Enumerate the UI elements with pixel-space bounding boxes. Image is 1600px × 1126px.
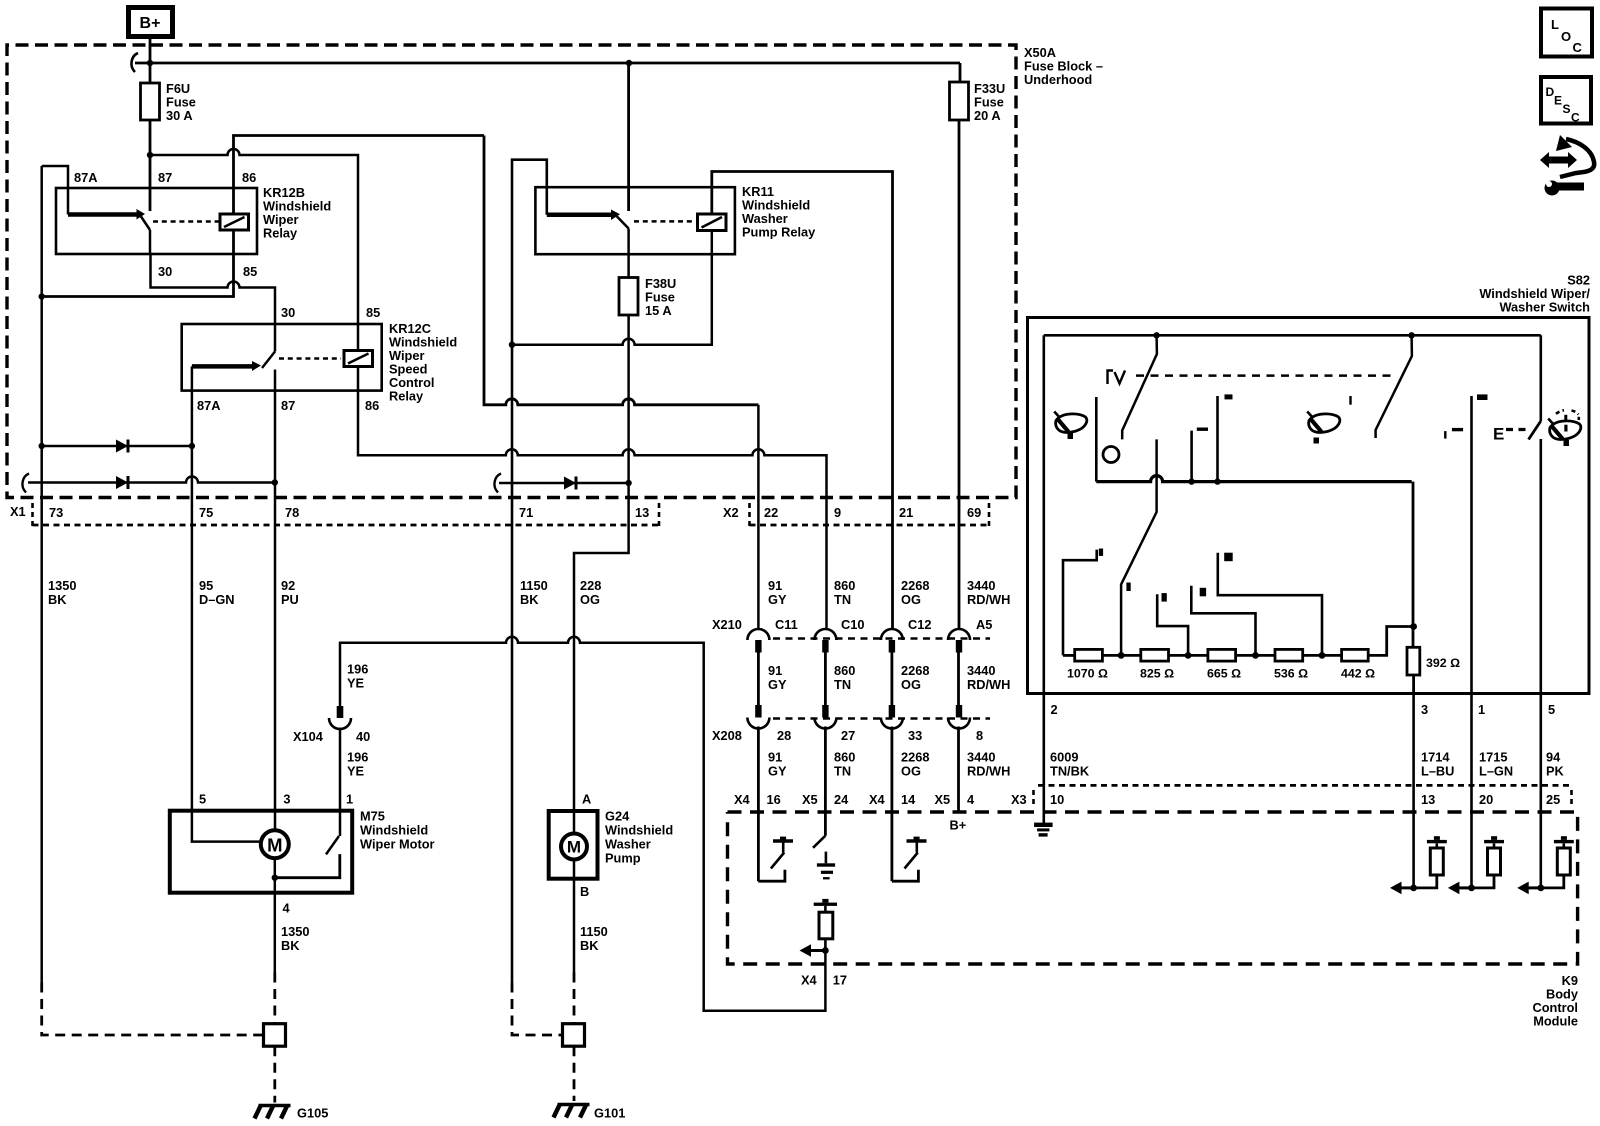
svg-text:1: 1 xyxy=(346,792,353,807)
svg-text:D–GN: D–GN xyxy=(199,592,235,607)
K9 arrow to other circuit X4-17 xyxy=(800,944,826,957)
KR12C relay coil xyxy=(344,351,373,367)
KR11 contact arrowhead xyxy=(611,210,620,221)
svg-text:69: 69 xyxy=(967,505,981,520)
svg-text:Relay: Relay xyxy=(263,226,298,241)
S82 internal top bus xyxy=(1044,334,1541,337)
svg-text:Relay: Relay xyxy=(389,389,424,404)
svg-text:24: 24 xyxy=(834,792,849,807)
wire chain segment xyxy=(1303,654,1342,657)
motor M75 armature circle xyxy=(261,830,289,858)
svg-text:BK: BK xyxy=(281,938,300,953)
S82 washer contact tick pair xyxy=(1445,428,1463,439)
svg-text:X5: X5 xyxy=(935,792,951,807)
svg-text:L–GN: L–GN xyxy=(1479,764,1513,779)
svg-text:B+: B+ xyxy=(950,818,967,833)
svg-text:27: 27 xyxy=(841,728,855,743)
KR11 actuation dashed link xyxy=(634,220,695,223)
svg-text:X104: X104 xyxy=(293,729,324,744)
wire KR12C pin 87 (92 PU) to M75 pin 3 xyxy=(274,391,277,830)
node junction chain (1188.1,655.4) xyxy=(1185,652,1192,659)
svg-text:Underhood: Underhood xyxy=(1024,72,1092,87)
svg-text:M: M xyxy=(267,835,282,856)
svg-text:PU: PU xyxy=(281,592,299,607)
connector X210 dashed plane xyxy=(773,637,990,640)
inline connector X210 A5 on 3440 RD/WH xyxy=(948,629,970,653)
svg-text:91: 91 xyxy=(768,663,782,678)
svg-text:1150: 1150 xyxy=(520,578,548,593)
svg-text:87: 87 xyxy=(281,398,295,413)
svg-text:75: 75 xyxy=(199,505,213,520)
svg-text:33: 33 xyxy=(908,728,922,743)
svg-text:94: 94 xyxy=(1546,750,1561,765)
splice curl on B+ bus xyxy=(131,53,138,72)
S82 washer switch dashed gap xyxy=(1506,428,1526,431)
svg-text:GY: GY xyxy=(768,764,787,779)
svg-text:30: 30 xyxy=(158,264,172,279)
svg-text:Windshield: Windshield xyxy=(360,823,428,838)
wire 3440 RD/WH mid xyxy=(957,653,960,706)
svg-text:21: 21 xyxy=(899,505,913,520)
svg-text:5: 5 xyxy=(1548,702,1555,717)
wire KR12B pin 30 to KR12C pin 30 with hop xyxy=(151,254,276,352)
relay KR12B windshield wiper relay box xyxy=(56,185,331,254)
wire S82 pin 5 (94 PK) to K9 xyxy=(1540,694,1543,888)
inline connector X210 C10 on 860 TN xyxy=(814,629,836,653)
svg-text:1715: 1715 xyxy=(1479,750,1507,765)
svg-text:OG: OG xyxy=(901,677,921,692)
fuse block X50A dashed border xyxy=(7,45,1016,498)
svg-text:1070 Ω: 1070 Ω xyxy=(1067,667,1108,681)
svg-text:87A: 87A xyxy=(74,170,97,185)
svg-text:BK: BK xyxy=(48,592,67,607)
svg-text:RD/WH: RD/WH xyxy=(967,592,1010,607)
node junction S82 top left (1156.6,335.3) xyxy=(1153,332,1159,338)
node junction chain (1121.1,655.4) xyxy=(1118,652,1125,659)
module K9 body control module dashed box xyxy=(728,812,1578,964)
svg-text:Pump Relay: Pump Relay xyxy=(742,225,816,240)
svg-text:Pump: Pump xyxy=(605,851,641,866)
wire chain segment xyxy=(1102,654,1140,657)
svg-text:BK: BK xyxy=(580,938,599,953)
svg-text:536 Ω: 536 Ω xyxy=(1274,667,1308,681)
connector X2 bottom dashed xyxy=(750,524,990,527)
wire chain segment xyxy=(1236,654,1275,657)
dashed wire G24 to splice xyxy=(573,973,576,1024)
wire 196 YE park-signal run with hops xyxy=(340,637,825,1011)
svg-text:30: 30 xyxy=(281,305,295,320)
S82 delay hook contact left xyxy=(1063,549,1103,656)
icon washer spray (right) xyxy=(1548,410,1581,446)
wire KR12B pin 86 to corner feed xyxy=(234,136,485,215)
M75 internal wire pin5 to motor xyxy=(192,811,260,842)
LOC legend box xyxy=(1541,9,1592,57)
svg-text:E: E xyxy=(1554,94,1562,108)
node junction bus at 1191.6 xyxy=(1188,478,1194,484)
fuse F33U 20A xyxy=(950,81,1006,123)
svg-text:91: 91 xyxy=(768,578,782,593)
svg-text:196: 196 xyxy=(347,750,368,765)
svg-text:C10: C10 xyxy=(841,617,864,632)
svg-text:3: 3 xyxy=(283,792,290,807)
wire KR12B pin 87A to left rail xyxy=(42,166,68,215)
M75 park switch hook contact xyxy=(275,854,340,878)
svg-text:3440: 3440 xyxy=(967,663,995,678)
inline connector X104 female cup xyxy=(329,718,351,729)
ground G105 xyxy=(255,1106,329,1121)
icon wiper low (left) xyxy=(1054,412,1087,440)
S82 washer switch blade xyxy=(1529,421,1541,440)
svg-text:4: 4 xyxy=(967,792,975,807)
svg-text:28: 28 xyxy=(777,728,791,743)
dashed wire M75 to splice xyxy=(273,973,276,1024)
svg-text:A: A xyxy=(582,792,591,807)
wire KR12B pin 85 coil to lower-left run xyxy=(42,230,234,297)
node junction at (512,344.7) xyxy=(509,342,515,348)
wire bus end down to 392 resistor xyxy=(1412,482,1415,648)
svg-text:87: 87 xyxy=(158,170,172,185)
wire B+ bus horizontal xyxy=(135,62,960,65)
wire X2-22 branch (91 GY) xyxy=(757,405,760,628)
svg-text:1150: 1150 xyxy=(580,924,608,939)
svg-text:22: 22 xyxy=(764,505,778,520)
wire X1-71 rail up-over to KR11 contact xyxy=(512,160,547,983)
KR12B actuation dashed link xyxy=(153,220,219,223)
svg-text:C12: C12 xyxy=(908,617,931,632)
resistor 536 ohm xyxy=(1274,649,1308,680)
wire chain segment xyxy=(1169,654,1208,657)
svg-text:YE: YE xyxy=(347,764,365,779)
wire KR12C pin 86 to B+ bus of relays xyxy=(358,367,827,629)
icon wiper intermittent (middle) xyxy=(1307,412,1340,444)
M75 motor bottom to pin 4 xyxy=(274,858,277,893)
KR12C contact arrowhead xyxy=(252,361,261,371)
wire 860 TN lower to K9 xyxy=(824,727,827,836)
svg-text:RD/WH: RD/WH xyxy=(967,764,1010,779)
svg-text:X2: X2 xyxy=(723,505,739,520)
svg-text:OG: OG xyxy=(901,764,921,779)
svg-text:20: 20 xyxy=(1479,792,1493,807)
KR12C switch blade xyxy=(262,352,275,369)
wire F33U feed vertical xyxy=(959,63,962,82)
svg-text:Washer Switch: Washer Switch xyxy=(1499,300,1590,315)
K9 pull-up for 1714 L-BU xyxy=(1390,836,1447,894)
wire M75 pin 4 ground lead 1350 BK xyxy=(274,893,277,973)
DESC legend box xyxy=(1541,77,1591,125)
pump G24 windshield washer pump box xyxy=(549,809,673,879)
resistor 442 ohm xyxy=(1341,649,1375,680)
connector X3 right separator xyxy=(1570,790,1573,808)
diode line A 1350BK to 95DGN xyxy=(39,440,196,453)
svg-text:B: B xyxy=(580,884,589,899)
wire F33U to X2 pin 69 (3440 RD/WH) xyxy=(958,120,961,628)
label X50A Fuse Block Underhood xyxy=(1024,45,1103,87)
svg-text:91: 91 xyxy=(768,750,782,765)
S82 delay hook contact B xyxy=(1191,586,1255,656)
inline connector X208 33 on 2268 OG xyxy=(881,705,903,729)
connector X2 right separator xyxy=(988,503,991,526)
inline connector X210 C11 on 91 GY xyxy=(747,629,769,653)
svg-text:OG: OG xyxy=(901,592,921,607)
wire 392 resistor to S82 pin 3 xyxy=(1412,675,1415,694)
svg-text:Module: Module xyxy=(1533,1014,1578,1029)
S82 contact tick near middle icon xyxy=(1349,396,1351,405)
M75 park switch blade xyxy=(326,836,339,854)
wire KR11 coil bottom to X1-71 junction xyxy=(512,231,712,345)
svg-text:C11: C11 xyxy=(775,617,798,632)
svg-text:392 Ω: 392 Ω xyxy=(1426,656,1460,670)
resistor 392 ohm xyxy=(1407,647,1460,675)
svg-text:15 A: 15 A xyxy=(645,303,672,318)
KR11 fixed contact bar xyxy=(547,213,612,218)
wire chain to 392 node xyxy=(1368,627,1413,656)
svg-text:95: 95 xyxy=(199,578,213,593)
wire S82 pin 3 (1714 L-BU) to K9 xyxy=(1412,694,1415,888)
switch S82 windshield wiper/washer switch outer box xyxy=(1028,318,1590,694)
wire G24 pin B ground lead 1150 BK xyxy=(573,860,576,973)
svg-text:196: 196 xyxy=(347,662,368,677)
node junction B+ bus at F6U xyxy=(147,60,153,66)
svg-text:86: 86 xyxy=(365,398,379,413)
ground G101 xyxy=(554,1105,626,1121)
battery positive terminal B+ xyxy=(129,8,173,37)
connector X2 separator xyxy=(748,503,751,526)
wire 2268 OG lower to K9 xyxy=(891,727,894,882)
connector X1 separator xyxy=(31,503,34,526)
svg-text:442 Ω: 442 Ω xyxy=(1341,667,1375,681)
ground G at BCM 6009 xyxy=(1034,823,1053,837)
svg-text:GY: GY xyxy=(768,677,787,692)
node junction chain (1322,655.4) xyxy=(1319,652,1326,659)
connector X1 bottom dashed xyxy=(33,524,660,527)
S82 pin 2 rail (left edge) xyxy=(1043,335,1046,693)
node junction bus at 1217.5 xyxy=(1214,478,1220,484)
inline connector X208 27 on 860 TN xyxy=(814,705,836,729)
svg-text:4: 4 xyxy=(283,901,291,916)
node junction (1413.6,626.5) xyxy=(1410,623,1417,630)
wire pin86 KR12B feeder down to KR11 row xyxy=(484,136,758,405)
svg-text:16: 16 xyxy=(767,792,781,807)
svg-text:A5: A5 xyxy=(976,617,992,632)
relay KR11 washer pump relay box xyxy=(535,184,816,254)
svg-text:2268: 2268 xyxy=(901,663,929,678)
svg-text:X4: X4 xyxy=(734,792,751,807)
svg-text:860: 860 xyxy=(834,663,855,678)
inline connector X104 male terminal xyxy=(337,706,344,718)
S82 contact stub mist xyxy=(1192,428,1208,482)
wire junction 155 to KR12C pin 85 with hop over pin86 wire xyxy=(150,149,358,351)
svg-text:X1: X1 xyxy=(10,504,26,519)
S82 delay hook contact A xyxy=(1157,593,1188,655)
svg-text:E: E xyxy=(1493,425,1504,444)
K9 driver switch for wire 14 xyxy=(892,837,927,882)
svg-text:13: 13 xyxy=(1421,792,1435,807)
connector X3 separator xyxy=(1032,790,1035,808)
svg-text:1350: 1350 xyxy=(48,578,76,593)
svg-text:10: 10 xyxy=(1050,792,1064,807)
node junction chain (1255.5,655.4) xyxy=(1252,652,1259,659)
node junction B+ bus at F38U branch xyxy=(626,60,632,66)
svg-text:92: 92 xyxy=(281,578,295,593)
S82 contact stub low/high xyxy=(1218,394,1233,481)
svg-text:Washer: Washer xyxy=(605,837,651,852)
svg-text:9: 9 xyxy=(834,505,841,520)
S82 wiper switch left blade xyxy=(1122,337,1157,440)
fuse F6U 30A xyxy=(141,81,196,123)
connector X1 right separator xyxy=(658,503,661,526)
wire 91 GY mid xyxy=(757,653,760,706)
svg-text:TN: TN xyxy=(834,592,851,607)
K9 switch to ground for wire 24 xyxy=(813,836,835,880)
svg-text:17: 17 xyxy=(833,973,847,988)
KR12B fixed contact 87A bar xyxy=(68,212,137,217)
resistor 665 ohm xyxy=(1207,649,1241,680)
K9 internal resistor on X4-17 xyxy=(814,899,837,951)
svg-text:20 A: 20 A xyxy=(974,108,1001,123)
svg-text:M75: M75 xyxy=(360,809,385,824)
wire B+ terminal to fuse block bus xyxy=(149,39,152,83)
dashed wire 1150 BK rail to splice xyxy=(512,983,563,1036)
svg-text:1: 1 xyxy=(1478,702,1485,717)
KR11 relay coil xyxy=(698,214,727,231)
splice node box G105 circuit xyxy=(264,1024,286,1046)
svg-text:RD/WH: RD/WH xyxy=(967,677,1010,692)
resistor 1070 ohm xyxy=(1067,649,1108,680)
svg-text:14: 14 xyxy=(901,792,916,807)
svg-text:Wiper Motor: Wiper Motor xyxy=(360,837,435,852)
S82 wiper switch right blade xyxy=(1376,337,1412,439)
left rail 87A/85 vertical (becomes 1350 BK) xyxy=(40,166,43,983)
motor M75 windshield wiper motor box xyxy=(170,809,435,893)
svg-text:40: 40 xyxy=(356,729,370,744)
svg-text:860: 860 xyxy=(834,578,855,593)
KR12C actuation dashed link xyxy=(279,357,341,360)
KR11 switch blade xyxy=(617,216,629,229)
pump G24 motor circle xyxy=(561,834,587,860)
KR11 blade to F38U internal xyxy=(627,229,630,278)
dashed wire splice to G105 xyxy=(273,1046,276,1102)
svg-text:3: 3 xyxy=(1421,702,1428,717)
svg-text:30 A: 30 A xyxy=(166,108,193,123)
inline connector X208 8 on 3440 RD/WH xyxy=(948,705,970,729)
svg-text:TN: TN xyxy=(834,764,851,779)
S82 delay selector arm xyxy=(1121,439,1157,655)
svg-text:X4: X4 xyxy=(869,792,886,807)
svg-text:Windshield: Windshield xyxy=(605,823,673,838)
diode line B to 92PU wire xyxy=(22,474,278,493)
svg-text:O: O xyxy=(1561,29,1571,44)
S82 mechanical dashed link xyxy=(1136,374,1397,377)
svg-text:73: 73 xyxy=(49,505,63,520)
svg-text:PK: PK xyxy=(1546,764,1565,779)
wire X104 to M75 pin 1 xyxy=(339,728,342,837)
svg-text:13: 13 xyxy=(635,505,649,520)
node junction at (150,155) xyxy=(147,152,153,158)
KR12B relay coil xyxy=(220,214,249,230)
svg-text:C: C xyxy=(1573,40,1583,55)
connector X3 dashed plane xyxy=(1038,784,1572,787)
wire F38U to X1-13 and over to 228 OG xyxy=(574,315,629,833)
svg-text:85: 85 xyxy=(366,305,380,320)
svg-text:25: 25 xyxy=(1546,792,1560,807)
S82 left pivot circle xyxy=(1103,447,1119,463)
svg-text:X3: X3 xyxy=(1011,792,1027,807)
S82 pin 1 contact square xyxy=(1477,394,1488,400)
node junction at (41.7,296.5) xyxy=(39,293,45,299)
svg-text:825 Ω: 825 Ω xyxy=(1140,667,1174,681)
svg-text:8: 8 xyxy=(976,728,983,743)
K9 pull-up for 94 PK xyxy=(1517,836,1574,894)
KR12B switch blade xyxy=(141,217,150,231)
svg-text:1350: 1350 xyxy=(281,924,309,939)
KR12B contact arrowhead xyxy=(137,209,146,220)
fuse F38U 15A xyxy=(619,276,676,318)
svg-text:86: 86 xyxy=(242,170,256,185)
svg-text:TN: TN xyxy=(834,677,851,692)
node junction M75 internal (274.8,877.7) xyxy=(272,875,278,881)
svg-text:X210: X210 xyxy=(712,617,742,632)
svg-text:2268: 2268 xyxy=(901,750,929,765)
svg-text:78: 78 xyxy=(285,505,299,520)
wire 3440 RD/WH lower to K9 xyxy=(957,727,960,813)
svg-text:228: 228 xyxy=(580,578,601,593)
svg-text:X5: X5 xyxy=(802,792,818,807)
svg-text:TN/BK: TN/BK xyxy=(1050,764,1090,779)
connector X208 dashed plane xyxy=(773,717,990,720)
svg-text:860: 860 xyxy=(834,750,855,765)
svg-text:2268: 2268 xyxy=(901,578,929,593)
wire 91 GY lower to K9 xyxy=(757,727,760,882)
wire 2268 OG mid xyxy=(891,653,894,706)
wire KR12C pin 87A (95 D-GN) to M75 pin 5 xyxy=(191,391,194,811)
svg-text:1714: 1714 xyxy=(1421,750,1450,765)
wire KR11 coil top to X2-21 (2268 OG) xyxy=(712,172,893,629)
svg-text:X4: X4 xyxy=(801,973,818,988)
K9 pull-up for 1715 L-GN xyxy=(1448,836,1504,894)
resistor 825 ohm xyxy=(1140,649,1174,680)
KR12C fixed contact 87A bar xyxy=(191,366,194,390)
svg-text:3440: 3440 xyxy=(967,750,995,765)
S82 washer line pin 5 xyxy=(1540,335,1543,693)
wire S82 pin 2 (6009 TN/BK) to ground xyxy=(1043,694,1046,824)
svg-text:87A: 87A xyxy=(197,398,220,413)
S82 delay symbol glyph xyxy=(1108,371,1126,385)
S82 lower common bus with hop xyxy=(1096,476,1411,482)
svg-text:GY: GY xyxy=(768,592,787,607)
node junction S82 top right (1411.6,335.3) xyxy=(1408,332,1414,338)
node junction (825.4,950.5) xyxy=(822,947,829,954)
KR11 pin from B+ junction (upper contact) xyxy=(627,63,630,211)
wire 860 TN mid xyxy=(824,653,827,706)
svg-text:3440: 3440 xyxy=(967,578,995,593)
svg-text:BK: BK xyxy=(520,592,539,607)
relay KR12C wiper speed control relay box xyxy=(182,321,457,404)
legend tool icon xyxy=(1540,135,1594,196)
svg-text:665 Ω: 665 Ω xyxy=(1207,667,1241,681)
inline connector X210 C12 on 2268 OG xyxy=(881,629,903,653)
KR12C blade to pin 87 internal xyxy=(274,370,277,391)
wire S82 pin 1 (1715 L-GN) to K9 xyxy=(1470,694,1473,888)
dashed wire splice to G101 xyxy=(573,1046,576,1101)
K9 driver switch for wire 16 xyxy=(758,837,793,882)
svg-text:71: 71 xyxy=(519,505,533,520)
label K9 Body Control Module xyxy=(1533,973,1579,1029)
svg-text:M: M xyxy=(567,838,581,857)
svg-text:C: C xyxy=(1571,111,1580,125)
svg-text:B+: B+ xyxy=(140,15,161,32)
wire F6U to KR12B pin 87 xyxy=(149,120,152,211)
svg-text:G101: G101 xyxy=(594,1106,625,1121)
